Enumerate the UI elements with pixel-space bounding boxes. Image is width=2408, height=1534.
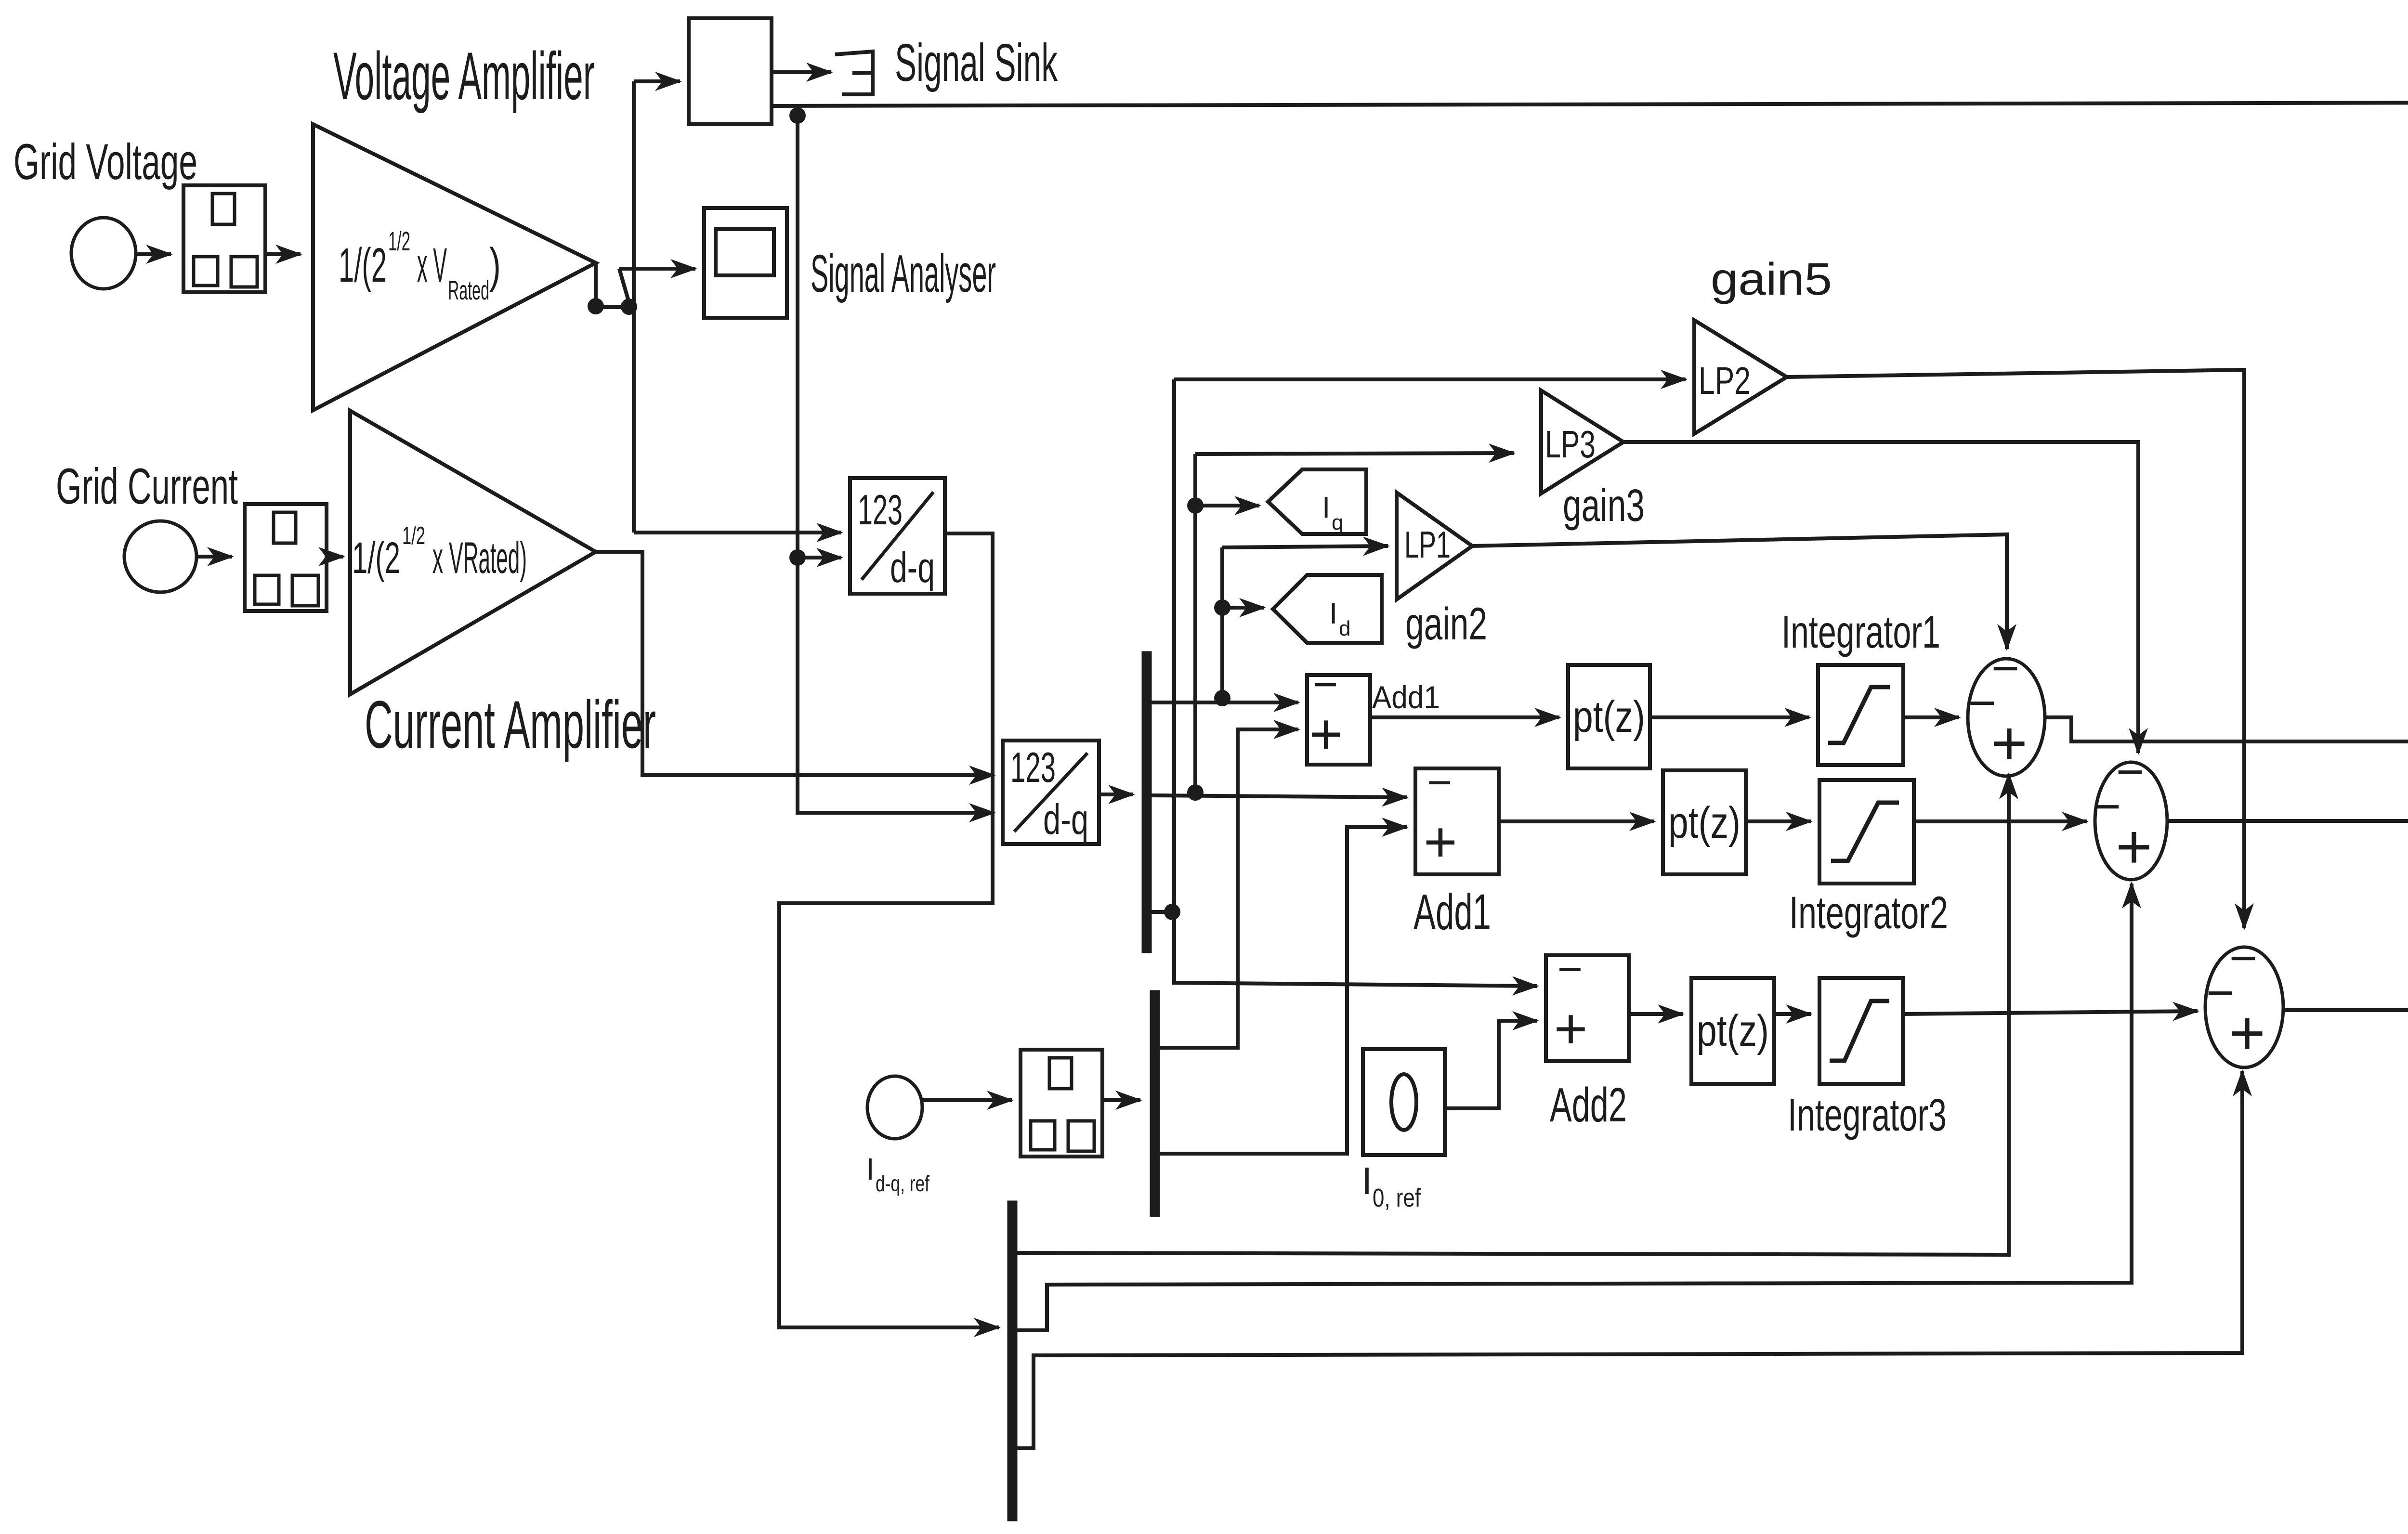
svg-text:d-q: d-q <box>890 544 935 591</box>
wire Voltage Amplifier output drop <box>594 263 598 303</box>
svg-text:Signal Analyser: Signal Analyser <box>811 244 996 303</box>
wire to Signal Sink display input <box>634 79 680 83</box>
wire q-component to gain LP3 input <box>1195 453 1514 454</box>
wire sum2 output to mux bus 4 <box>2167 819 2408 823</box>
wire Grid Voltage to signal block 1 <box>136 252 171 256</box>
wire sum3 output to mux bus 4 <box>2283 903 2408 1010</box>
junction dot q on q-line <box>1187 784 1204 801</box>
svg-text:gain2: gain2 <box>1405 598 1487 650</box>
wire Current Amplifier output to 123/d-q 2 input 1 <box>596 552 994 775</box>
block Add1 (q-axis) <box>1415 768 1499 874</box>
wire d-component to gain LP1 input <box>1222 546 1388 547</box>
block 123/d-q 2 (current) <box>1003 741 1099 844</box>
svg-text:+: + <box>1424 810 1457 874</box>
svg-text:d: d <box>1339 617 1350 640</box>
svg-text:+: + <box>2116 811 2152 882</box>
wire signal block 2 to Current Amplifier <box>328 555 343 559</box>
wire d reference to Add1 plus input <box>1160 729 1298 1048</box>
wire voltage to 123/d-q 1 input 1 <box>634 531 841 534</box>
gain Voltage Amplifier 1/(2^1/2 x VRated) <box>313 124 596 410</box>
wire 0-component vertical x2438 to Add2 minus input <box>1174 379 1537 986</box>
wire 123/d-q 1 output to feedforward demux bus 3 <box>779 533 999 1327</box>
wire d-component vertical x2538 <box>1220 547 1224 699</box>
icon signal sink terminator <box>835 52 873 94</box>
svg-text:−: − <box>1427 758 1453 806</box>
wire junction to Signal Analyser riser <box>619 269 629 302</box>
wire Integrator3 to sum3 <box>1903 1011 2198 1014</box>
svg-text:d-q, ref: d-q, ref <box>876 1171 929 1196</box>
wire signal block 3 to demux bus 2 <box>1104 1098 1140 1102</box>
svg-text:I: I <box>1361 1159 1372 1202</box>
wire 0-component to gain LP2 input <box>1174 377 1686 381</box>
junction dot q branch to Iq tag <box>1187 497 1204 514</box>
wire feedforward d to sum1 plus input <box>1017 774 2009 1255</box>
source Grid Current <box>124 521 196 592</box>
icon saturation Integrator2 <box>1831 803 1899 861</box>
wire q measurement to Add1(q) minus input <box>1152 795 1407 797</box>
gain LP1 (gain2) <box>1397 493 1472 599</box>
wire q-component vertical x2482 <box>1193 454 1197 793</box>
block Signal Analyser scope <box>704 208 787 318</box>
svg-text:Add1: Add1 <box>1372 679 1440 715</box>
svg-text:pt(z): pt(z) <box>1668 798 1741 847</box>
wire to Signal Analyser input <box>619 267 695 271</box>
bus demux 1 (measured dq0) <box>1142 651 1152 953</box>
svg-text:I: I <box>1322 491 1330 524</box>
svg-text:1/2: 1/2 <box>402 522 425 550</box>
wire Integrator2 to sum2 <box>1914 819 2087 823</box>
wire pt(z) 2 to Integrator2 <box>1746 819 1811 823</box>
svg-text:Integrator1: Integrator1 <box>1781 607 1940 658</box>
wire LP1 output to sum1 top <box>1472 534 2007 649</box>
block Add1 (d-axis) <box>1307 675 1370 765</box>
svg-text:Signal Sink: Signal Sink <box>895 33 1058 92</box>
tag Iq <box>1268 469 1366 534</box>
wire branch to Id tag <box>1222 606 1264 610</box>
svg-text:gain3: gain3 <box>1563 480 1645 531</box>
wire Add1 to pt(z) 1 <box>1370 715 1559 719</box>
svg-text:LP3: LP3 <box>1545 423 1596 466</box>
numeral 0 inside constant block <box>1391 1074 1416 1130</box>
block Integrator1 <box>1818 665 1903 765</box>
signal spec block 2 (current) <box>245 504 327 611</box>
svg-text:Integrator2: Integrator2 <box>1789 887 1948 938</box>
svg-text:): ) <box>489 238 501 292</box>
wire voltage sync vertical x1656 to 123/d-q 2 input 2 <box>798 109 994 813</box>
wire feedforward q to sum2 plus input <box>1017 884 2132 1330</box>
svg-text:1/2: 1/2 <box>388 226 410 256</box>
wire Grid Current to signal block 2 <box>197 555 232 559</box>
source Grid Voltage <box>71 218 136 289</box>
wire I d-q,ref to signal block 3 <box>922 1098 1012 1102</box>
svg-text:d-q: d-q <box>1043 795 1088 843</box>
svg-text:+: + <box>2229 998 2265 1068</box>
svg-text:x VRated): x VRated) <box>432 533 527 583</box>
wire to signal sink terminator icon <box>772 70 831 74</box>
bus demux 3 (voltage feedforward) <box>1008 1201 1017 1521</box>
svg-text:Rated: Rated <box>448 275 489 305</box>
wire between junction dots <box>596 305 627 309</box>
wire sum1 output to mux bus 4 <box>2045 717 2408 741</box>
block Add2 (0-axis) <box>1546 955 1629 1061</box>
wire signal block 1 to Voltage Amplifier <box>265 252 301 256</box>
wire q reference to Add1(q) plus input <box>1160 827 1407 1154</box>
svg-text:I: I <box>866 1152 875 1186</box>
junction dot d branch to Id tag <box>1214 599 1230 616</box>
wire pt(z) 3 to Integrator3 <box>1774 1012 1811 1016</box>
icon saturation Integrator3 <box>1830 1001 1889 1061</box>
wire LP3 output to sum2 top <box>1623 442 2138 753</box>
signal spec block 1 (voltage) <box>183 185 265 292</box>
svg-text:LP2: LP2 <box>1699 359 1751 402</box>
junction dot 1 (voltage node) <box>588 298 604 314</box>
signal spec block 3 (reference) <box>1021 1050 1102 1157</box>
block constant I0ref <box>1363 1049 1445 1155</box>
svg-text:123: 123 <box>858 486 903 533</box>
svg-text:Grid Current: Grid Current <box>56 458 238 515</box>
block pt(z) 1 <box>1568 665 1650 768</box>
junction dot voltage sync branch <box>789 549 806 566</box>
svg-text:q: q <box>1332 511 1343 534</box>
svg-text:123: 123 <box>1010 743 1056 791</box>
block 123/d-q 1 (voltage) <box>850 478 945 594</box>
junction dot 0-component <box>1164 904 1180 920</box>
block pt(z) 3 <box>1691 978 1774 1084</box>
bus demux 2 (dq reference) <box>1150 990 1160 1217</box>
wire pt(z) 1 to Integrator1 <box>1650 715 1809 719</box>
gain LP3 (gain3) <box>1541 390 1623 494</box>
wire LP2 output to sum3 top <box>1787 370 2244 928</box>
svg-text:pt(z): pt(z) <box>1573 692 1645 741</box>
svg-text:Add1: Add1 <box>1413 884 1491 940</box>
block Integrator3 <box>1819 978 1903 1084</box>
wire branch to 123/d-q 1 input 2 <box>798 556 841 559</box>
wire feedforward 0 to sum3 plus input <box>1017 1071 2242 1448</box>
wire Add2 to pt(z) 3 <box>1629 1012 1683 1016</box>
svg-text:pt(z): pt(z) <box>1697 1006 1769 1055</box>
svg-text:1/(2: 1/(2 <box>339 238 387 292</box>
junction dot d on d-line <box>1214 690 1230 706</box>
wire d measurement to Add1 minus input <box>1152 701 1298 704</box>
sum junction 3 (0-axis) <box>2205 947 2283 1067</box>
wire Signal Sink node to 123/dq0 input 1 (top long wire) <box>772 103 2408 781</box>
svg-text:Grid Voltage: Grid Voltage <box>13 134 197 190</box>
junction dot on long wire <box>789 107 806 124</box>
tag Id <box>1273 575 1382 643</box>
svg-text:+: + <box>1309 702 1343 767</box>
svg-text:x V: x V <box>417 238 447 292</box>
block pt(z) 2 <box>1663 770 1746 874</box>
junction dot 2 (voltage node) <box>621 299 637 315</box>
svg-text:Voltage Amplifier: Voltage Amplifier <box>333 38 595 114</box>
wire I0ref constant to Add2 plus input <box>1445 1021 1537 1108</box>
svg-text:LP1: LP1 <box>1404 523 1451 566</box>
wire Add1(q) to pt(z) 2 <box>1499 819 1654 823</box>
svg-text:0, ref: 0, ref <box>1373 1183 1421 1212</box>
sum junction 1 (d-axis) <box>1968 659 2045 776</box>
svg-text:Current Amplifier: Current Amplifier <box>365 687 656 762</box>
gain Current Amplifier 1/(2^1/2 x VRated) <box>350 411 596 694</box>
svg-text:1/(2: 1/(2 <box>352 533 400 583</box>
block Integrator2 <box>1819 780 1914 884</box>
wire Integrator1 to sum1 <box>1903 715 1959 719</box>
source I d-q,ref <box>867 1076 922 1139</box>
svg-text:Add2: Add2 <box>1550 1078 1627 1132</box>
wire 0 measurement stub from bus 1 <box>1152 910 1173 914</box>
sum junction 2 (q-axis) <box>2095 762 2167 880</box>
svg-text:gain5: gain5 <box>1711 254 1832 305</box>
svg-text:+: + <box>1554 997 1588 1061</box>
wire 123/d-q 2 output to demux bus 1 <box>1099 793 1133 796</box>
svg-text:I: I <box>1329 597 1337 630</box>
block Signal Sink display <box>689 18 772 124</box>
svg-text:Integrator3: Integrator3 <box>1788 1090 1947 1141</box>
svg-text:−: − <box>1557 945 1583 993</box>
gain LP2 (gain5) <box>1694 320 1787 434</box>
wire voltage node vertical bus x1316 <box>632 81 636 533</box>
wire branch to Iq tag <box>1195 504 1259 507</box>
icon saturation Integrator1 <box>1828 687 1890 743</box>
svg-text:+: + <box>1991 708 2028 778</box>
